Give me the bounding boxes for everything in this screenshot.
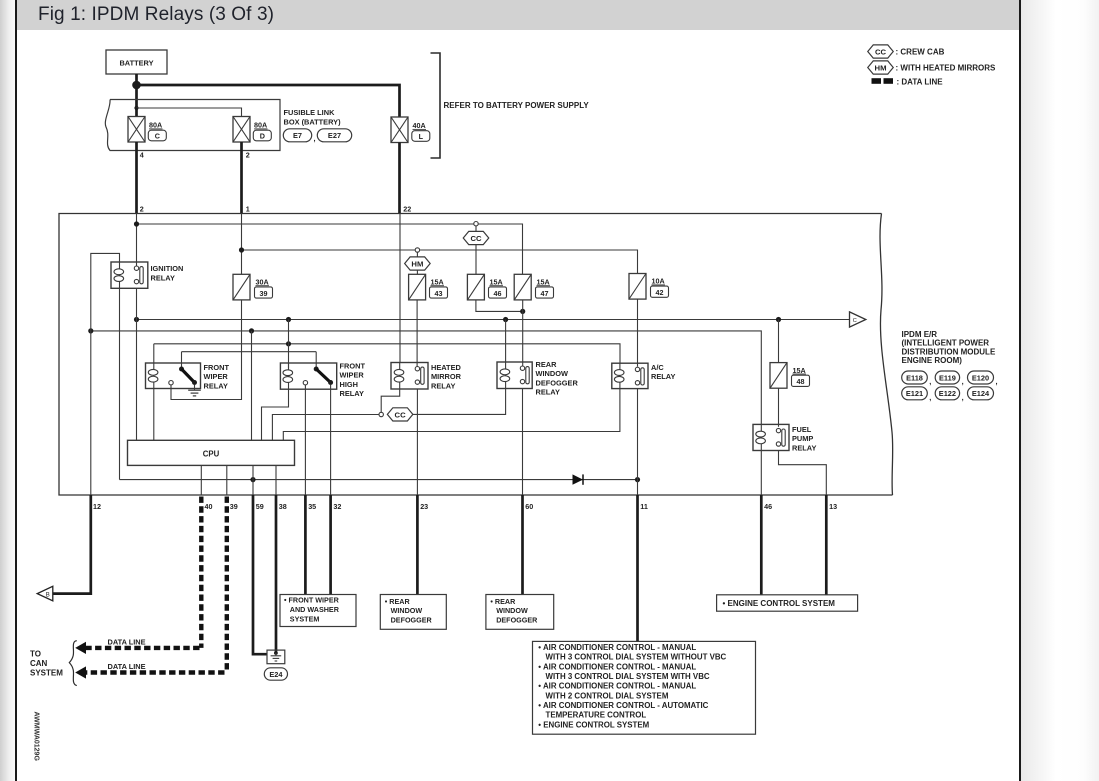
wire fuse39 to FW relay contact	[171, 300, 242, 400]
relay K6 AC	[612, 363, 648, 388]
wire fuse43 to HM relay contact	[416, 300, 418, 367]
svg-text:FUSIBLE LINK: FUSIBLE LINK	[284, 108, 336, 117]
svg-text:11: 11	[640, 502, 648, 511]
svg-text:A/C: A/C	[651, 363, 664, 372]
wire 2 to ignition relay contact	[136, 214, 138, 267]
data line pin39	[75, 497, 227, 679]
pin 46 label	[764, 502, 772, 511]
wire fuse48 to FP contact	[778, 388, 780, 427]
svg-text:42: 42	[656, 288, 664, 297]
svg-text:10A: 10A	[652, 277, 665, 286]
svg-text:• FRONT WIPER: • FRONT WIPER	[284, 596, 340, 605]
wire 2 fuse D to IPDM pin 1	[240, 142, 243, 214]
svg-text:32: 32	[333, 502, 341, 511]
svg-text:12: 12	[93, 502, 101, 511]
label 15A 43	[430, 278, 448, 299]
svg-text:FRONT: FRONT	[340, 361, 366, 370]
pin 35 label	[308, 502, 316, 511]
legend label crew cab	[896, 48, 945, 57]
fuse 42 10A	[629, 274, 646, 300]
svg-text:CC: CC	[470, 234, 482, 243]
wire pin38 to ground E24	[275, 495, 278, 652]
label 40A L	[412, 121, 430, 141]
svg-text:23: 23	[420, 502, 428, 511]
wire pin46 from FP coil	[760, 451, 762, 496]
svg-text:E121: E121	[906, 389, 923, 398]
legend label data line	[897, 77, 944, 86]
svg-text:BOX (BATTERY): BOX (BATTERY)	[284, 118, 342, 127]
pin 1 label IPDM	[246, 204, 250, 213]
wire ignition coil top	[91, 253, 120, 331]
svg-text:2: 2	[246, 151, 250, 160]
svg-text:CC: CC	[395, 410, 407, 419]
wire bus B y331 to fuel pump coil	[91, 331, 762, 425]
arrow B to CAN	[37, 586, 53, 601]
svg-text:• REAR: • REAR	[385, 597, 411, 606]
node option circle CC mid	[379, 412, 383, 416]
svg-text:RELAY: RELAY	[151, 273, 175, 282]
svg-text:DATA LINE: DATA LINE	[108, 662, 146, 671]
ground front wiper relay	[188, 385, 201, 396]
wire 4 fuse C to IPDM pin 2	[135, 142, 138, 214]
svg-text:IGNITION: IGNITION	[151, 264, 184, 273]
svg-text:ENGINE ROOM): ENGINE ROOM)	[902, 356, 963, 365]
wire bus D pivots	[182, 351, 317, 353]
wire CPU pin39	[226, 465, 228, 495]
svg-text:35: 35	[308, 502, 316, 511]
svg-text:WINDOW: WINDOW	[391, 606, 423, 615]
node battery junction	[132, 81, 141, 90]
wire pin60 to rear window defogger 2	[521, 495, 524, 595]
svg-text:39: 39	[260, 289, 268, 298]
svg-text:E27: E27	[328, 131, 341, 140]
wire FW coil to CPU	[153, 389, 155, 441]
node fusible link feed	[134, 106, 138, 110]
fusible link C 80A	[128, 117, 145, 143]
svg-text:WIPER: WIPER	[204, 372, 229, 381]
svg-text:CPU: CPU	[203, 450, 220, 459]
wire ignition coil to diode line	[119, 288, 121, 479]
svg-text:40A: 40A	[413, 121, 426, 130]
node wire1 bus250	[239, 247, 244, 252]
svg-text:RELAY: RELAY	[431, 382, 455, 391]
wire pin23 to rear window defogger 1	[416, 495, 419, 595]
data line pin40	[75, 497, 201, 655]
label AC relay	[651, 363, 675, 381]
option symbol HM	[405, 252, 431, 274]
svg-text:HEATED: HEATED	[431, 363, 461, 372]
label 15A 48	[792, 366, 810, 387]
svg-text:MIRROR: MIRROR	[431, 372, 462, 381]
IPDM E/R enclosure	[59, 214, 893, 496]
svg-text:D: D	[260, 132, 265, 141]
svg-text:FUEL: FUEL	[792, 425, 812, 434]
wire pin23 from HM contact	[416, 389, 418, 495]
svg-text:: WITH HEATED MIRRORS: : WITH HEATED MIRRORS	[896, 64, 997, 73]
connector E124	[968, 387, 994, 400]
pin 11 label	[640, 502, 648, 511]
relay K7 fuel pump	[753, 424, 789, 450]
svg-text:RELAY: RELAY	[340, 389, 364, 398]
node busA RWD coil	[503, 317, 508, 322]
wire pin59 to ground E24	[253, 495, 267, 654]
svg-text:• AIR CONDITIONER CONTROL - MA: • AIR CONDITIONER CONTROL - MANUAL	[538, 682, 696, 691]
node option circle CC top	[474, 222, 478, 226]
svg-text:HIGH: HIGH	[340, 380, 358, 389]
node wire2 bus224	[134, 221, 139, 226]
wire FWH pivot up	[315, 352, 317, 369]
wire CPU pin59	[252, 465, 254, 495]
wire bus A y319.5	[137, 319, 850, 321]
svg-text:DEFOGGER: DEFOGGER	[391, 616, 433, 625]
svg-text:L: L	[419, 132, 424, 141]
svg-text:: CREW CAB: : CREW CAB	[896, 48, 945, 57]
svg-text:RELAY: RELAY	[536, 388, 560, 397]
wire FW pivot up	[181, 352, 183, 369]
pin 40 label	[205, 502, 213, 511]
svg-text:46: 46	[494, 289, 502, 298]
svg-text:E24: E24	[269, 670, 283, 679]
wire bus y224 to fuse 47	[137, 224, 523, 274]
legend symbol data line	[872, 78, 894, 84]
label comma 1	[314, 134, 316, 143]
legend symbol HM	[868, 61, 894, 74]
svg-text:DATA LINE: DATA LINE	[108, 637, 146, 646]
svg-text:REAR: REAR	[536, 360, 558, 369]
svg-text:48: 48	[797, 377, 805, 386]
option symbol CC mid	[387, 408, 413, 421]
label data line 1	[108, 637, 146, 646]
CPU U1	[128, 440, 295, 465]
pin 22 label IPDM	[403, 204, 411, 213]
svg-text:DISTRIBUTION MODULE: DISTRIBUTION MODULE	[902, 347, 996, 356]
wire busA to FWH coil	[288, 320, 290, 369]
label comma E121	[929, 393, 931, 402]
wire pin12 inside	[90, 331, 92, 495]
wire 22 fuse L to IPDM pin 22	[398, 143, 401, 214]
node option circle HM	[415, 248, 419, 252]
label comma E122	[962, 393, 964, 402]
node diode line pin11	[635, 477, 640, 482]
wire CC to CPU	[272, 415, 379, 441]
wire into fuse C	[135, 108, 138, 117]
pin 39 label	[230, 502, 238, 511]
svg-text:38: 38	[279, 502, 287, 511]
wire pin12 to arrow B	[53, 495, 91, 594]
svg-text:SYSTEM: SYSTEM	[30, 668, 63, 677]
label front wiper high relay	[340, 361, 366, 398]
svg-text:E122: E122	[939, 389, 956, 398]
svg-text:2: 2	[140, 204, 144, 213]
fuse 46 15A	[467, 274, 484, 300]
connector E120	[968, 371, 994, 384]
svg-text:DEFOGGER: DEFOGGER	[496, 616, 538, 625]
fusible link D 80A	[233, 117, 250, 143]
relay K3 front wiper high	[280, 363, 336, 389]
label 80A C	[148, 121, 166, 141]
wire CPU pin40	[200, 465, 202, 495]
connector E119	[935, 371, 959, 384]
pin 23 label	[420, 502, 428, 511]
bracket refer to battery power supply	[431, 53, 441, 158]
svg-text:HM: HM	[875, 63, 887, 72]
svg-text:,: ,	[962, 393, 964, 402]
svg-text:,: ,	[996, 377, 998, 386]
connector E24	[264, 668, 287, 680]
svg-text:30A: 30A	[256, 278, 269, 287]
node busB cpu drop	[249, 328, 254, 333]
svg-text:60: 60	[525, 502, 533, 511]
wire CC to RWD coil	[413, 389, 506, 415]
svg-text:HM: HM	[411, 259, 423, 268]
wire ignition contact to CPU	[136, 288, 138, 440]
svg-text:• ENGINE CONTROL SYSTEM: • ENGINE CONTROL SYSTEM	[538, 720, 649, 729]
svg-text:TO: TO	[30, 650, 41, 659]
label 30A 39	[255, 278, 273, 299]
fuse 47 15A	[514, 274, 531, 300]
wire HM coil to CC circle	[381, 389, 400, 412]
svg-text:IPDM E/R: IPDM E/R	[902, 330, 938, 339]
svg-text:CAN: CAN	[30, 659, 48, 668]
wire busB to CPU	[251, 331, 253, 440]
label comma E120	[996, 377, 998, 386]
wire 22 to heated mirror relay coil	[399, 214, 401, 363]
arrow C continuation	[850, 312, 866, 327]
box front wiper and washer system	[280, 595, 356, 627]
battery B1	[106, 50, 167, 74]
wire pin13 to engine control system	[825, 495, 828, 595]
diode D1	[573, 474, 584, 484]
wire branch to fuse D	[137, 108, 242, 117]
wire FWH coil to CPU	[262, 389, 289, 440]
svg-text:47: 47	[541, 289, 549, 298]
label 15A 46	[489, 278, 507, 299]
svg-text:59: 59	[256, 502, 264, 511]
connector E7	[283, 129, 311, 142]
fusible link L 40A	[391, 117, 408, 143]
wire pin35 to front wiper system	[304, 495, 307, 595]
pin 2 label IPDM	[140, 204, 144, 213]
pin 60 label	[525, 502, 533, 511]
box rear window defogger 2	[486, 595, 554, 630]
svg-text:,: ,	[929, 393, 931, 402]
wire busA to RWD coil	[505, 320, 507, 363]
wire busA to fuse48	[778, 320, 780, 363]
label fuel pump relay	[792, 425, 816, 453]
svg-text:B: B	[46, 592, 50, 598]
label front wiper relay	[204, 363, 230, 391]
label heated mirror relay	[431, 363, 462, 391]
svg-text:• ENGINE CONTROL SYSTEM: • ENGINE CONTROL SYSTEM	[723, 599, 836, 608]
wire diode line y479.6	[120, 479, 638, 481]
label fusible link box	[284, 108, 342, 127]
connector E27	[317, 129, 351, 142]
svg-text:• AIR CONDITIONER CONTROL - AU: • AIR CONDITIONER CONTROL - AUTOMATIC	[538, 701, 708, 710]
svg-text:E7: E7	[293, 131, 302, 140]
fusible link box (battery)	[105, 100, 280, 151]
svg-text:,: ,	[929, 377, 931, 386]
wire battery to junction	[135, 74, 138, 85]
label diagram code	[33, 712, 40, 762]
svg-text:PUMP: PUMP	[792, 434, 813, 443]
label rear window defogger relay	[536, 360, 579, 397]
svg-text:AWMWA0129G: AWMWA0129G	[33, 712, 40, 762]
label 80A D	[253, 121, 271, 141]
pin 32 label	[333, 502, 341, 511]
relay K2 front wiper	[146, 363, 201, 389]
wire pin32 to front wiper system	[329, 495, 332, 595]
fuse 48 15A	[770, 363, 787, 389]
option symbol CC top	[463, 226, 489, 274]
svg-text:E119: E119	[939, 373, 956, 382]
box air conditioner control systems	[533, 641, 756, 734]
wire fuse42 to AC relay contact	[637, 299, 639, 366]
connector E121	[902, 387, 928, 400]
legend symbol CC	[868, 45, 894, 58]
front wiper switch	[169, 367, 197, 386]
svg-text:E120: E120	[972, 373, 989, 382]
svg-text:22: 22	[403, 204, 411, 213]
svg-text:4: 4	[140, 151, 144, 160]
svg-text:DEFOGGER: DEFOGGER	[536, 378, 579, 387]
svg-text:RELAY: RELAY	[651, 372, 675, 381]
node busB pin12	[88, 328, 93, 333]
svg-text:(INTELLIGENT POWER: (INTELLIGENT POWER	[902, 339, 990, 348]
svg-text:WINDOW: WINDOW	[536, 369, 568, 378]
wire pin35 from FWH contact	[304, 385, 306, 495]
node diode line pin59	[250, 477, 255, 482]
label ignition relay	[151, 264, 184, 283]
ground E24 box	[267, 650, 285, 664]
svg-text:39: 39	[230, 502, 238, 511]
connector E118	[902, 371, 928, 384]
svg-text:RELAY: RELAY	[204, 382, 228, 391]
svg-text:TEMPERATURE CONTROL: TEMPERATURE CONTROL	[546, 711, 647, 720]
svg-text:E118: E118	[906, 373, 923, 382]
pin 59 label	[256, 502, 264, 511]
pin 4 label	[140, 151, 144, 160]
box rear window defogger 1	[380, 595, 446, 630]
svg-text:46: 46	[764, 502, 772, 511]
svg-text:WINDOW: WINDOW	[496, 606, 528, 615]
front wiper high switch	[303, 367, 333, 386]
node busA FWH coil	[286, 317, 291, 322]
svg-text:E124: E124	[972, 389, 990, 398]
node busA ignition	[134, 317, 139, 322]
svg-text:15A: 15A	[490, 278, 503, 287]
brace to CAN system	[69, 641, 77, 686]
svg-text:CC: CC	[875, 47, 887, 56]
svg-text:RELAY: RELAY	[792, 444, 816, 453]
wire AC coil to CPU	[283, 389, 620, 441]
fuse 43 15A	[409, 274, 426, 300]
relay K5 rear window defogger	[497, 362, 532, 389]
wire battery bus to fuse L	[137, 85, 400, 117]
svg-text:43: 43	[435, 289, 443, 298]
pin 13 label	[829, 502, 837, 511]
relay K1 ignition	[111, 262, 148, 288]
legend label with heated mirrors	[896, 64, 997, 73]
svg-text:WITH 3 CONTROL DIAL SYSTEM WIT: WITH 3 CONTROL DIAL SYSTEM WITH VBC	[546, 672, 710, 681]
svg-text:REFER TO BATTERY POWER SUPPLY: REFER TO BATTERY POWER SUPPLY	[444, 101, 590, 110]
wire pin32 from FWH arm	[330, 385, 332, 495]
wire fuse47 to RWD relay contact	[522, 300, 524, 367]
svg-text:WIPER: WIPER	[340, 371, 365, 380]
pin 2 label	[246, 151, 250, 160]
svg-text:15A: 15A	[793, 366, 806, 375]
wire FW coil top	[153, 344, 155, 363]
svg-text:C: C	[853, 318, 857, 324]
pin 38 label	[279, 502, 287, 511]
pin 12 label	[93, 502, 101, 511]
svg-text:AND WASHER: AND WASHER	[290, 605, 340, 614]
wire pin11 from AC contact	[637, 389, 639, 495]
label 10A 42	[651, 277, 669, 298]
svg-text:1: 1	[246, 204, 250, 213]
wire bus C y343.8 to AC coil	[154, 344, 620, 363]
svg-text:BATTERY: BATTERY	[119, 58, 153, 67]
wire pin60 from RWD contact	[522, 389, 524, 496]
svg-text:• AIR CONDITIONER CONTROL - MA: • AIR CONDITIONER CONTROL - MANUAL	[538, 662, 696, 671]
svg-text:C: C	[155, 132, 160, 141]
node busA fuse48	[776, 317, 781, 322]
label 15A 47	[536, 278, 554, 299]
svg-text:15A: 15A	[537, 278, 550, 287]
label comma E118	[929, 377, 931, 386]
wire pin13 from FP contact	[779, 451, 827, 496]
wire bus y250 to fuse 42	[242, 250, 638, 274]
svg-text:SYSTEM: SYSTEM	[290, 614, 320, 623]
node busC FWH coil	[286, 341, 291, 346]
wire CPU pin38	[275, 465, 277, 495]
wire pin46 to engine control system	[760, 495, 763, 595]
svg-text:: DATA LINE: : DATA LINE	[897, 77, 944, 86]
svg-text:80A: 80A	[254, 121, 267, 130]
wire pin11 to AC control box	[636, 495, 639, 641]
box engine control system	[717, 595, 858, 611]
svg-text:,: ,	[962, 377, 964, 386]
svg-text:WITH 2 CONTROL DIAL SYSTEM: WITH 2 CONTROL DIAL SYSTEM	[546, 691, 669, 700]
fuse 39 30A	[233, 274, 250, 300]
label IPDM ER module	[902, 330, 996, 365]
relay K4 heated mirror	[391, 363, 428, 390]
node fuse join 311	[520, 309, 525, 314]
svg-text:,: ,	[314, 134, 316, 143]
wire fuse46 join fuse47	[476, 300, 523, 312]
svg-text:15A: 15A	[431, 278, 444, 287]
svg-text:FRONT: FRONT	[204, 363, 230, 372]
connector E122	[935, 387, 959, 400]
label to can system	[30, 650, 63, 678]
label data line 2	[108, 662, 146, 671]
svg-text:13: 13	[829, 502, 837, 511]
label refer to battery power supply	[444, 101, 590, 110]
wire 1 to fuse 39	[241, 214, 243, 275]
label comma E119	[962, 377, 964, 386]
svg-text:40: 40	[205, 502, 213, 511]
wire battery down to fusible link box	[135, 85, 138, 108]
svg-text:WITH 3 CONTROL DIAL SYSTEM WIT: WITH 3 CONTROL DIAL SYSTEM WITHOUT VBC	[546, 653, 727, 662]
svg-text:• AIR CONDITIONER CONTROL - MA: • AIR CONDITIONER CONTROL - MANUAL	[538, 643, 696, 652]
svg-text:• REAR: • REAR	[490, 597, 516, 606]
svg-text:80A: 80A	[149, 121, 162, 130]
